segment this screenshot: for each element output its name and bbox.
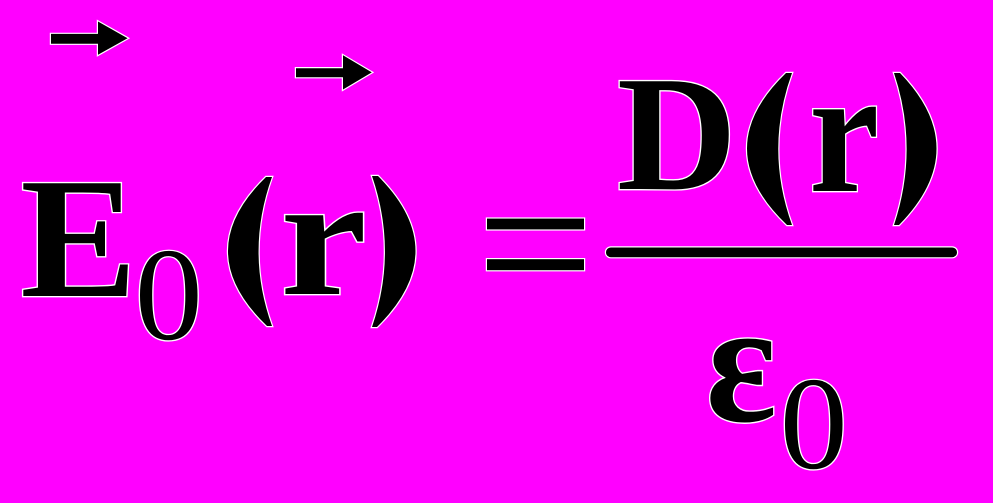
svg-text:0: 0 xyxy=(780,350,848,497)
left parenthesis of E0(r) xyxy=(228,177,272,326)
svg-text:D: D xyxy=(617,43,737,225)
fraction bar xyxy=(606,248,957,258)
vector arrow over r xyxy=(296,55,372,89)
svg-text:r: r xyxy=(809,34,879,231)
right parenthesis of D(r) xyxy=(894,73,937,225)
equals sign xyxy=(487,219,584,230)
svg-text:0: 0 xyxy=(135,221,203,368)
svg-text:E: E xyxy=(20,142,137,334)
svg-text:ε: ε xyxy=(706,266,777,459)
vector arrow over E xyxy=(51,22,128,55)
right parenthesis of E0(r) xyxy=(372,176,416,327)
svg-text:r: r xyxy=(280,141,367,331)
left parenthesis of D(r) xyxy=(747,73,792,225)
